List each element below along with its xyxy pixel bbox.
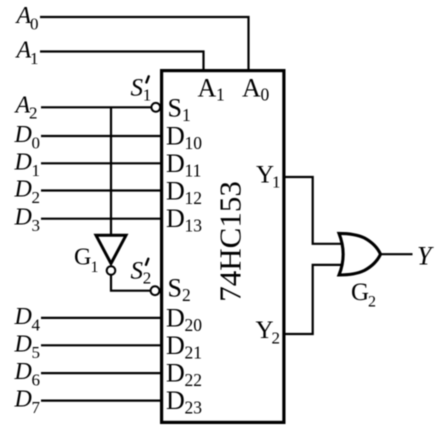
svg-text:D: D: [166, 149, 185, 178]
svg-text:11: 11: [185, 161, 202, 181]
svg-text:A: A: [198, 73, 217, 102]
svg-text:S: S: [131, 258, 144, 285]
svg-text:D: D: [14, 122, 32, 148]
svg-text:3: 3: [32, 216, 41, 235]
svg-text:2: 2: [272, 329, 281, 348]
svg-text:6: 6: [32, 371, 41, 390]
svg-text:1: 1: [143, 86, 152, 105]
svg-text:S: S: [131, 75, 144, 102]
svg-text:D: D: [14, 149, 32, 175]
svg-text:S: S: [168, 94, 182, 123]
svg-text:0: 0: [261, 85, 270, 105]
svg-text:4: 4: [32, 315, 41, 334]
svg-text:D: D: [166, 122, 185, 151]
svg-text:D: D: [14, 304, 32, 330]
svg-text:2: 2: [182, 285, 191, 305]
svg-text:1: 1: [91, 259, 99, 276]
svg-text:13: 13: [185, 216, 203, 236]
svg-text:2: 2: [32, 188, 41, 207]
svg-text:1: 1: [216, 85, 225, 105]
svg-text:D: D: [166, 331, 185, 360]
svg-text:0: 0: [30, 15, 39, 34]
svg-text:20: 20: [185, 315, 203, 335]
svg-text:12: 12: [185, 188, 203, 208]
svg-text:1: 1: [32, 161, 41, 180]
svg-text:D: D: [14, 359, 32, 385]
svg-text:D: D: [14, 177, 32, 203]
svg-text:A: A: [14, 92, 31, 118]
svg-text:D: D: [14, 205, 32, 231]
svg-text:74HC153: 74HC153: [213, 181, 248, 302]
svg-text:D: D: [14, 331, 32, 357]
svg-text:D: D: [166, 359, 185, 388]
svg-text:22: 22: [185, 370, 203, 390]
svg-text:21: 21: [185, 342, 203, 362]
svg-text:D: D: [166, 204, 185, 233]
svg-text:G: G: [74, 244, 91, 270]
svg-text:S: S: [168, 274, 182, 303]
svg-text:10: 10: [185, 133, 203, 153]
svg-text:1: 1: [30, 49, 39, 68]
svg-text:D: D: [166, 177, 185, 206]
svg-text:A: A: [242, 73, 261, 102]
svg-text:23: 23: [185, 398, 203, 418]
svg-text:A: A: [15, 3, 32, 29]
svg-text:D: D: [166, 303, 185, 332]
svg-text:1: 1: [272, 173, 281, 192]
svg-text:Y: Y: [417, 242, 434, 271]
svg-text:A: A: [15, 38, 32, 64]
svg-text:5: 5: [32, 343, 41, 362]
svg-text:G: G: [351, 279, 369, 306]
svg-text:0: 0: [32, 134, 41, 153]
svg-text:7: 7: [32, 398, 41, 417]
svg-text:2: 2: [143, 269, 152, 288]
svg-text:D: D: [166, 386, 185, 415]
svg-text:2: 2: [29, 104, 38, 123]
svg-text:2: 2: [368, 294, 376, 311]
svg-text:D: D: [14, 387, 32, 413]
